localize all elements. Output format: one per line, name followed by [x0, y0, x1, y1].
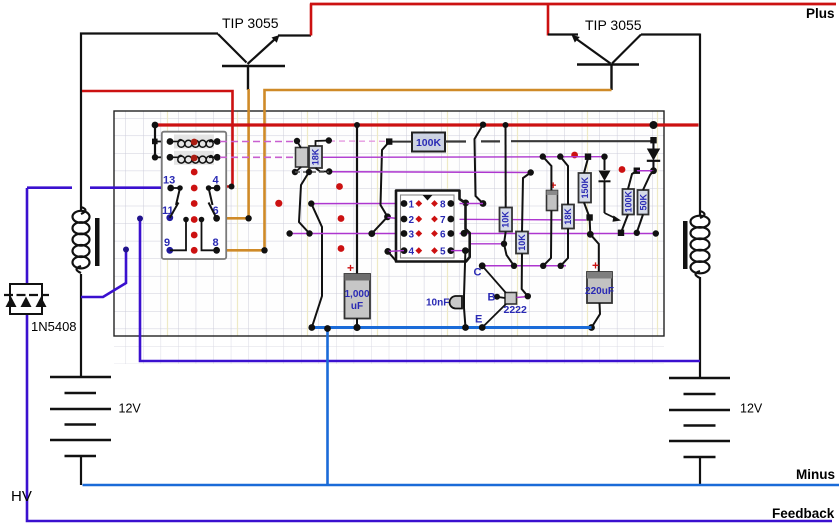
diode D3 (small, above potentiometer): [599, 154, 611, 214]
svg-text:+: +: [347, 261, 354, 275]
IC U2 pin 4: [401, 247, 415, 258]
svg-text:Plus: Plus: [806, 6, 835, 21]
svg-text:10K: 10K: [501, 211, 511, 228]
wire: black feed from Plus rail to relay coil pins: [152, 125, 170, 161]
relay pin 4: [213, 175, 221, 192]
wire: red from left black line to relay pin 4: [82, 91, 235, 190]
violet row H (pin7 row y=219.5): [451, 218, 586, 221]
svg-text:+: +: [592, 259, 599, 273]
violet row D (y=172): [329, 169, 534, 175]
wire: IC pin 5 to 10nF node down to blue rail: [451, 247, 469, 327]
svg-text:Feedback: Feedback: [772, 506, 835, 521]
relay pin 13: [163, 175, 175, 192]
IC U2 pin 8: [440, 200, 454, 211]
wire: from resistor row down to violet row I: [299, 172, 310, 234]
svg-text:100K: 100K: [624, 190, 634, 212]
wire: top-left black from transistor Q1 collector, down left side: [81, 34, 218, 212]
resistor R6 18K: [557, 153, 574, 269]
diode D2 (right, vertical): [647, 137, 660, 174]
resistor R3 100K (horizontal): [386, 133, 445, 152]
transformer T2 primary coil (right): [683, 211, 710, 378]
svg-text:1N5408: 1N5408: [31, 319, 77, 334]
capacitor C4 10nF: [426, 296, 462, 309]
wire: Minus line (blue bottom rail): [83, 484, 839, 487]
wire: red Plus rail inside board: [152, 121, 699, 129]
resistor R1 (gray, unlabeled): [292, 138, 308, 175]
violet dashed row from relay coil 1: [220, 141, 297, 143]
diode pack D1 1N5408 (3 parallel diodes): [4, 284, 49, 314]
svg-text:18K: 18K: [563, 208, 573, 225]
svg-text:50K: 50K: [638, 193, 648, 210]
IC U2 pin 2: [401, 215, 415, 226]
relay coil winding 2: [167, 154, 221, 163]
svg-text:220uF: 220uF: [585, 286, 614, 297]
capacitor C3 (small gray electrolytic): [540, 153, 558, 265]
wire: red drop from Plus bus to Q2 collector: [547, 4, 550, 36]
svg-text:10nF: 10nF: [426, 298, 449, 309]
transistor Q2 TIP 3055 symbol: [548, 35, 700, 91]
free hole dots (red): [275, 152, 625, 252]
wire: indigo from board bottom-left down and under board to right battery: [137, 216, 700, 362]
wire: indigo from left rail to relay pin 13 (with hop over black wire): [27, 186, 171, 189]
relay contact arms (right): [199, 185, 217, 250]
IC U2 inner hole dots: [415, 200, 437, 254]
violet dashed link 18K top to 100K left: [329, 140, 388, 142]
svg-text:12V: 12V: [119, 402, 142, 416]
potentiometer wiper arrow: [605, 213, 622, 222]
svg-text:9: 9: [164, 237, 170, 249]
resistor R4 10K: [500, 125, 515, 266]
transformer T1 primary coil (left): [73, 207, 100, 377]
wire: red from Q1 emitter up to Plus bus: [310, 4, 313, 36]
svg-text:Minus: Minus: [796, 467, 835, 482]
wire: HV indigo line down left side: [27, 188, 832, 521]
violet row J (y=243.8): [470, 241, 507, 247]
wire: 100K left lead down to IC pin 2: [368, 142, 404, 237]
resistor R9 50K: [634, 171, 659, 237]
svg-text:HV: HV: [11, 488, 32, 505]
capacitor C2 220uF: [585, 259, 614, 331]
svg-text:10K: 10K: [517, 234, 527, 251]
relay pin 11: [162, 205, 174, 221]
svg-text:8: 8: [213, 237, 219, 249]
battery B1 12V (left): [50, 377, 111, 485]
wire: right black vertical from Q2 to transformer T2: [699, 34, 701, 217]
transistor Q1 TIP 3055 symbol: [218, 34, 311, 90]
svg-text:4: 4: [213, 175, 220, 187]
svg-text:8: 8: [440, 200, 446, 211]
svg-text:TIP 3055: TIP 3055: [585, 17, 642, 33]
svg-text:100K: 100K: [416, 137, 442, 149]
wire: indigo stub from coil/battery junction up into board: [81, 247, 129, 298]
relay K1 block: [162, 132, 226, 259]
wire: 150K bottom down to 220uF top: [587, 218, 599, 274]
node E (emitter): [475, 304, 506, 331]
node C (collector): [474, 262, 507, 293]
IC U2 pin 7: [440, 215, 454, 226]
svg-text:4: 4: [409, 247, 415, 258]
svg-text:1: 1: [409, 200, 415, 211]
wire: from row G down to blue rail: [311, 204, 322, 328]
svg-text:3: 3: [409, 230, 415, 241]
breadboard panel: [114, 111, 664, 364]
relay coil winding 1: [167, 138, 221, 147]
svg-text:B: B: [488, 292, 496, 304]
svg-text:C: C: [474, 267, 482, 279]
relay centre hole dots: [191, 169, 198, 254]
svg-text:2222: 2222: [504, 304, 528, 316]
wire: from Plus rail down to IC pin 8: [451, 125, 487, 207]
resistor R7 150K: [579, 154, 593, 221]
IC U2 pin 5: [440, 247, 454, 258]
svg-text:13: 13: [163, 175, 175, 187]
svg-text:5: 5: [440, 247, 446, 258]
transistor Q3 2222: [504, 293, 528, 317]
IC U2 pin 1: [401, 200, 415, 211]
svg-text:18K: 18K: [311, 148, 321, 165]
blue rail inside board: [308, 324, 591, 332]
relay pin 9: [164, 237, 173, 254]
violet dashed row from relay coil 2: [220, 156, 303, 158]
dashed link between resistor bottoms: [295, 169, 329, 175]
violet row G (to IC pin 1): [308, 200, 404, 206]
node B (base): [488, 292, 532, 304]
violet row E (right): [634, 168, 654, 174]
wire: orange from Q1 base down to relay pin 6: [218, 89, 252, 222]
resistor R5 10K: [516, 173, 531, 297]
battery B2 12V (right): [669, 378, 730, 485]
violet row I (long, y=233.5): [286, 230, 655, 237]
relay pin 6: [213, 205, 221, 222]
svg-text:E: E: [475, 314, 482, 326]
svg-text:6: 6: [440, 230, 446, 241]
relay contact arms (left): [170, 185, 189, 250]
dark row from 100K right to diode D2: [445, 140, 651, 143]
wire: orange from relay pin 8 up and right to Q2 base: [218, 90, 612, 254]
IC U2 (8-pin block): [396, 191, 470, 263]
wire: vertical black from Plus rail to capacitor C1: [356, 125, 358, 274]
violet row C (middle y=157): [308, 156, 605, 159]
resistor R2 18K (vertical): [309, 137, 332, 174]
resistor R8 100K (vertical): [618, 171, 637, 236]
svg-text:uF: uF: [351, 301, 363, 312]
relay pin 8: [213, 237, 221, 254]
svg-text:7: 7: [440, 215, 446, 226]
svg-text:12V: 12V: [740, 402, 763, 416]
svg-text:2: 2: [409, 215, 415, 226]
capacitor C1 1,000 uF: [344, 261, 370, 328]
svg-text:TIP 3055: TIP 3055: [222, 15, 279, 31]
violet row L (y=265.3): [482, 263, 566, 269]
wire: Plus bus (top red rail): [310, 3, 836, 6]
IC U2 pin 6: [440, 230, 454, 241]
svg-text:150K: 150K: [580, 176, 590, 198]
wire: blue vertical from board bottom to Minus line: [326, 329, 329, 485]
svg-text:1,000: 1,000: [344, 289, 369, 300]
IC U2 pin 3: [401, 230, 415, 241]
wire: IC pin 4 stub to outline: [384, 248, 404, 262]
